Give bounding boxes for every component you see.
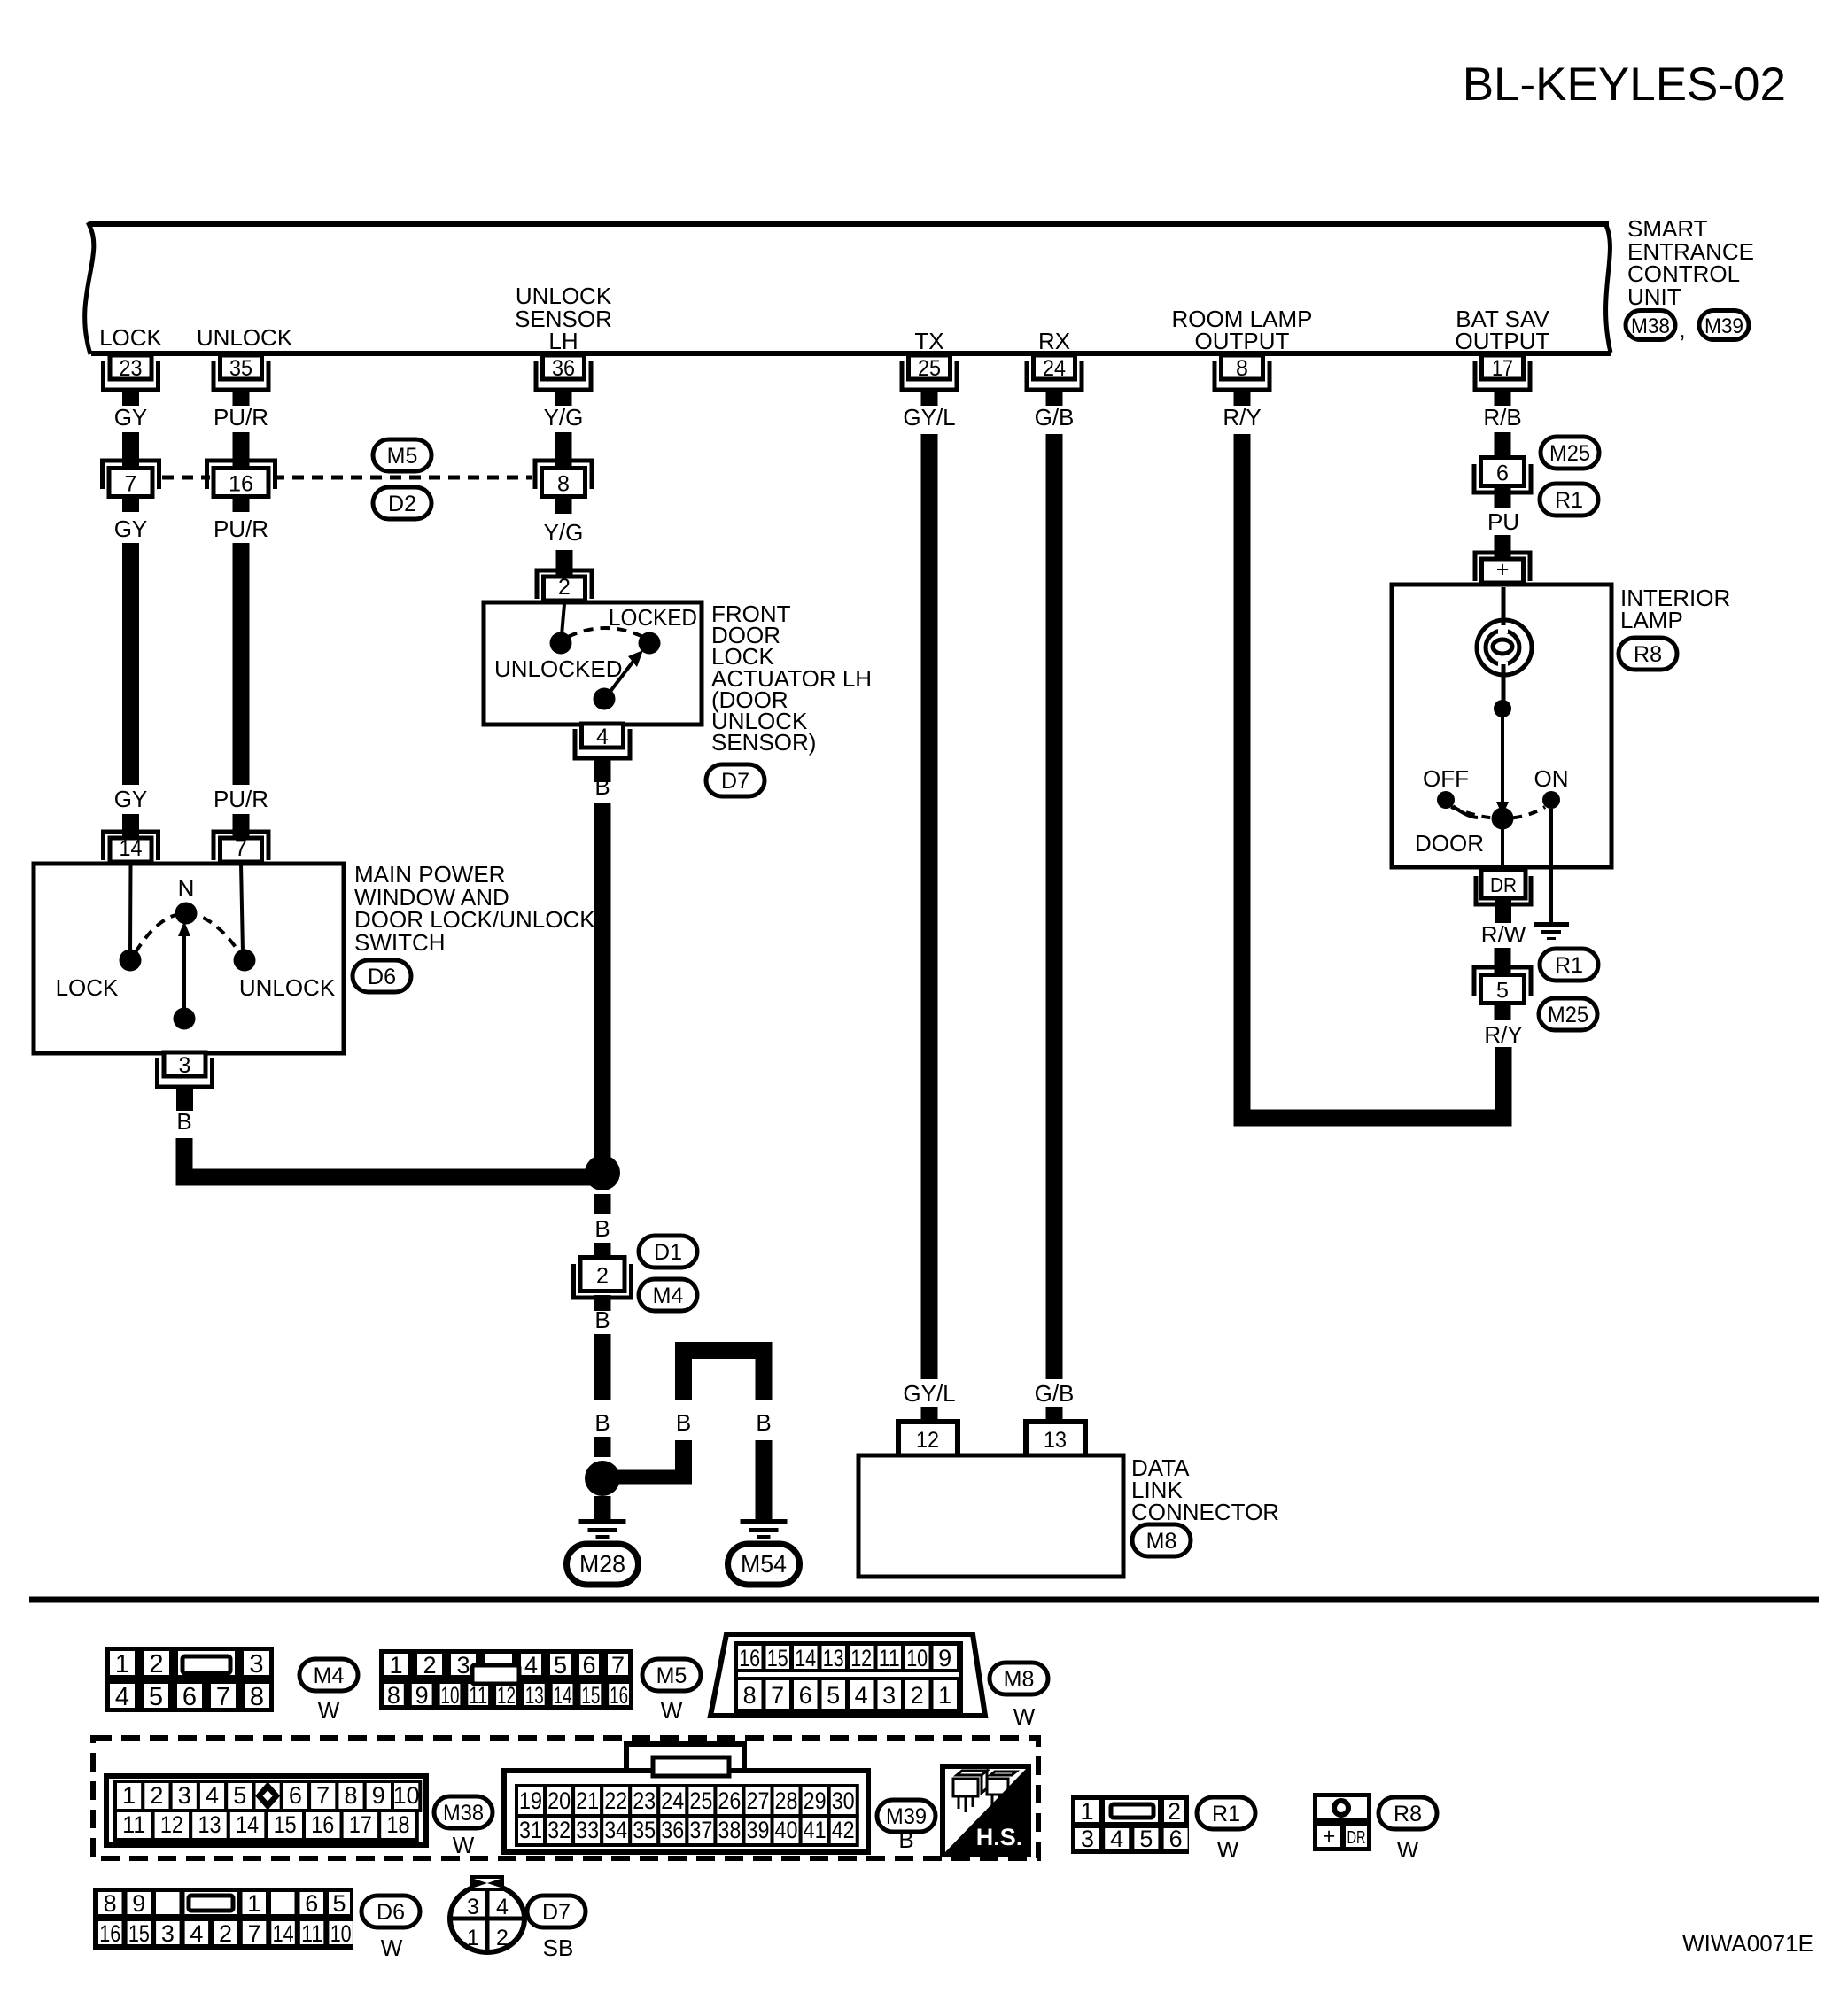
- svg-text:40: 40: [775, 1817, 798, 1843]
- connector ref D6 (pinout): [361, 1896, 420, 1961]
- svg-text:14: 14: [273, 1920, 294, 1947]
- pin 24 (control unit): [1027, 355, 1082, 406]
- line plus to bulb: [1502, 587, 1506, 631]
- label G/B: [1035, 404, 1075, 430]
- label GY/L: [903, 404, 955, 430]
- connector pinout M38: [106, 1776, 426, 1845]
- svg-text:4: 4: [115, 1683, 129, 1711]
- H.S. hand-shake logo: [943, 1766, 1029, 1855]
- connector ref R1 (pinout): [1197, 1797, 1255, 1863]
- svg-text:+: +: [1496, 557, 1510, 582]
- svg-text:12: 12: [160, 1811, 183, 1838]
- label B below connector 2: [594, 1307, 610, 1333]
- figure id WIWA0071E: [1682, 1930, 1813, 1957]
- svg-text:M4: M4: [653, 1283, 684, 1308]
- label SMART ENTRANCE CONTROL UNIT: [1627, 215, 1754, 310]
- connector ref R1 (top): [1540, 484, 1598, 516]
- pin 23 (control unit): [104, 355, 159, 406]
- label B below switch: [176, 1108, 191, 1135]
- svg-text:12: 12: [916, 1428, 939, 1453]
- svg-text:3: 3: [179, 1053, 191, 1078]
- label PU/R below connector 16: [214, 516, 268, 542]
- connector ref M5 (pinout): [642, 1659, 701, 1724]
- ground symbol M54: [741, 1519, 788, 1539]
- svg-text:4: 4: [524, 1652, 538, 1679]
- label UNLOCK SENSOR LH pin 36: [515, 283, 612, 354]
- svg-text:B: B: [594, 773, 610, 800]
- lamp arrow to door switch: [1496, 709, 1509, 816]
- svg-text:15: 15: [274, 1811, 297, 1838]
- svg-text:4: 4: [496, 1895, 509, 1919]
- svg-text:W: W: [381, 1935, 403, 1961]
- svg-text:15: 15: [581, 1682, 600, 1709]
- svg-text:B: B: [594, 1307, 610, 1333]
- connector ref M25 (top): [1541, 437, 1599, 469]
- svg-text:30: 30: [832, 1787, 855, 1814]
- wire stub below connector 16: [233, 499, 250, 512]
- pin 3 (switch): [158, 1052, 213, 1111]
- svg-text:2: 2: [149, 1650, 163, 1679]
- pin 25 (control unit): [902, 355, 957, 406]
- connector pinout M8: [710, 1634, 985, 1716]
- svg-text:37: 37: [689, 1817, 712, 1843]
- svg-text:3: 3: [161, 1920, 175, 1947]
- wire stub above connector 5: [1495, 948, 1511, 973]
- svg-text:W: W: [1397, 1836, 1419, 1863]
- connector pinout R8: [1313, 1793, 1371, 1851]
- dashed arc door switch: [1451, 807, 1545, 818]
- wire PU/R pin35 to connector 16: [233, 432, 250, 466]
- svg-text:UNLOCK: UNLOCK: [197, 324, 293, 351]
- label GY above pin 14: [114, 786, 148, 812]
- svg-text:3: 3: [467, 1895, 479, 1919]
- pin 35 (control unit): [214, 355, 268, 406]
- dashed link connector 7 to 16: [162, 476, 210, 480]
- svg-text:2: 2: [423, 1652, 436, 1679]
- svg-text:36: 36: [552, 356, 575, 381]
- data link connector box: [858, 1455, 1123, 1577]
- svg-text:W: W: [1013, 1703, 1036, 1730]
- dashed arc switch: [136, 913, 240, 953]
- svg-text:D2: D2: [388, 492, 416, 516]
- svg-text:M5: M5: [656, 1663, 687, 1688]
- svg-text:OFF: OFF: [1423, 765, 1469, 792]
- svg-text:8: 8: [250, 1683, 264, 1711]
- label Y/G below connector 8: [544, 519, 584, 546]
- svg-text:D6: D6: [368, 965, 396, 989]
- svg-text:8: 8: [387, 1682, 400, 1709]
- svg-text:38: 38: [718, 1817, 741, 1843]
- wire stub above pin 14: [122, 814, 139, 839]
- svg-text:GY: GY: [114, 516, 148, 542]
- dashed link connector 16 to 8: [273, 476, 532, 480]
- wire stub junction to ground: [594, 1496, 611, 1520]
- svg-text:31: 31: [519, 1817, 542, 1843]
- svg-text:WIWA0071E: WIWA0071E: [1682, 1930, 1813, 1957]
- svg-text:TX: TX: [914, 328, 943, 354]
- svg-text:R1: R1: [1555, 953, 1583, 978]
- svg-text:2: 2: [1168, 1798, 1181, 1825]
- wire GY/L TX to data link: [921, 434, 938, 1379]
- wire R/B pin17 to connector 6: [1495, 432, 1511, 457]
- svg-text:H.S.: H.S.: [976, 1824, 1023, 1850]
- svg-text:OUTPUT: OUTPUT: [1195, 328, 1290, 354]
- wire stub below connector 2: [594, 1295, 611, 1311]
- svg-text:M28: M28: [579, 1550, 625, 1578]
- svg-text:M54: M54: [741, 1550, 787, 1578]
- wire junction to loop: [602, 1470, 692, 1485]
- svg-text:DR: DR: [1490, 873, 1517, 896]
- wire stub above pin 12: [921, 1407, 938, 1421]
- svg-text:2: 2: [558, 575, 571, 600]
- connector pinout M4: [105, 1647, 274, 1712]
- contact dot UNLOCKED: [550, 632, 572, 655]
- wire B switch to junction: [184, 1138, 602, 1177]
- svg-text:5: 5: [827, 1682, 840, 1709]
- title BL-KEYLES-02: [1463, 58, 1786, 111]
- contact dot UNLOCK: [234, 950, 256, 972]
- svg-text:42: 42: [832, 1817, 855, 1843]
- svg-text:6: 6: [582, 1652, 595, 1679]
- svg-text:11: 11: [879, 1645, 900, 1671]
- svg-text:PU/R: PU/R: [214, 404, 268, 430]
- svg-text:R1: R1: [1555, 488, 1583, 513]
- svg-text:+: +: [1323, 1824, 1336, 1849]
- svg-text:2: 2: [596, 1264, 609, 1289]
- svg-text:UNLOCKED: UNLOCKED: [494, 655, 622, 682]
- wire PU/R connector16 to switch: [233, 543, 250, 785]
- dashed arc actuator switch: [568, 628, 643, 637]
- label TX pin 25: [914, 328, 943, 354]
- svg-text:25: 25: [918, 356, 941, 381]
- svg-text:11: 11: [122, 1811, 145, 1838]
- contact dot LOCKED: [639, 632, 661, 655]
- svg-text:25: 25: [689, 1787, 712, 1814]
- connector ref M5: [373, 439, 431, 471]
- svg-text:GY/L: GY/L: [903, 404, 955, 430]
- wire R/Y connector 5 down: [1495, 1047, 1512, 1111]
- wire Y/G to actuator pin 2: [556, 550, 573, 576]
- connector ref M8 (data link): [1132, 1524, 1191, 1556]
- line pin2 to unlocked contact: [562, 604, 564, 635]
- svg-text:23: 23: [120, 356, 143, 381]
- svg-text:13: 13: [1044, 1428, 1067, 1453]
- svg-text:2: 2: [496, 1926, 509, 1950]
- svg-text:8: 8: [344, 1782, 357, 1809]
- svg-text:5: 5: [233, 1782, 246, 1809]
- svg-text:9: 9: [415, 1682, 429, 1709]
- svg-text:B: B: [176, 1108, 191, 1135]
- svg-text:D7: D7: [542, 1900, 571, 1925]
- label GY/L above pin 12: [903, 1380, 955, 1407]
- svg-text:36: 36: [661, 1817, 684, 1843]
- svg-text:M25: M25: [1549, 441, 1590, 466]
- connector pinout D6: [93, 1888, 353, 1950]
- label LOCK pin 23: [99, 324, 162, 351]
- pin 4 (actuator): [575, 724, 630, 782]
- svg-text:28: 28: [775, 1787, 798, 1814]
- label PU: [1487, 508, 1519, 535]
- label LOCKED: [609, 604, 697, 631]
- svg-text:5: 5: [332, 1890, 346, 1917]
- wire B actuator to junction: [594, 803, 611, 1165]
- svg-text:6: 6: [182, 1683, 197, 1711]
- svg-text:10: 10: [906, 1645, 928, 1671]
- svg-text:14: 14: [236, 1811, 259, 1838]
- wire loop upper: [684, 1351, 765, 1400]
- svg-text:18: 18: [387, 1811, 410, 1838]
- wire G/B RX to data link: [1046, 434, 1063, 1379]
- svg-text:7: 7: [611, 1652, 625, 1679]
- connector ref M25 (bottom): [1539, 998, 1597, 1030]
- svg-text:29: 29: [804, 1787, 827, 1814]
- connector pinout R1: [1071, 1795, 1189, 1854]
- svg-text:LH: LH: [548, 328, 578, 354]
- svg-text:1: 1: [938, 1682, 951, 1709]
- svg-text:32: 32: [547, 1817, 571, 1843]
- svg-text:M39: M39: [1704, 314, 1743, 338]
- wire stub above ground junction: [594, 1437, 611, 1457]
- label OFF: [1423, 765, 1469, 792]
- connector 8 (M5/D2): [535, 461, 592, 497]
- label R/B: [1483, 404, 1521, 430]
- svg-text:8: 8: [743, 1682, 757, 1709]
- svg-text:SENSOR): SENSOR): [711, 729, 816, 756]
- label UNLOCK pin 35: [197, 324, 293, 351]
- ground symbol lamp ON: [1534, 922, 1569, 940]
- svg-text:7: 7: [316, 1782, 330, 1809]
- pin 14 (switch): [104, 814, 159, 862]
- contact dot N: [175, 903, 198, 925]
- svg-text:17: 17: [1492, 356, 1513, 381]
- svg-text:4: 4: [1110, 1826, 1123, 1852]
- svg-text:35: 35: [229, 356, 252, 381]
- label R/Y below connector 5: [1484, 1021, 1522, 1048]
- connector ref R8 (lamp): [1619, 638, 1677, 670]
- interior lamp box: [1392, 585, 1611, 867]
- pin 7 (switch): [214, 814, 268, 862]
- svg-text:14: 14: [120, 836, 143, 861]
- svg-text:R8: R8: [1634, 642, 1662, 667]
- label MAIN POWER WINDOW AND DOOR LOCK/UNLOCK SWITCH: [354, 861, 595, 956]
- label B loop right: [756, 1409, 771, 1436]
- line pin7 to UNLOCK contact: [241, 864, 243, 952]
- line pin14 to LOCK contact: [128, 864, 133, 952]
- wire loop right leg lower: [756, 1440, 773, 1519]
- svg-text:Y/G: Y/G: [544, 519, 584, 546]
- svg-text:D7: D7: [721, 769, 749, 794]
- svg-text:GY: GY: [114, 404, 148, 430]
- svg-text:7: 7: [216, 1683, 230, 1711]
- connector ref M39 (pinout): [877, 1800, 936, 1853]
- connector pinout D7: [450, 1877, 524, 1952]
- svg-text:10: 10: [393, 1782, 420, 1809]
- svg-text:GY/L: GY/L: [903, 1380, 955, 1407]
- wire stub below connector 5: [1495, 1005, 1511, 1020]
- svg-text:G/B: G/B: [1035, 404, 1075, 430]
- svg-text:LOCK: LOCK: [56, 974, 119, 1001]
- label N: [178, 875, 195, 902]
- svg-text:2: 2: [150, 1782, 163, 1809]
- svg-text:W: W: [661, 1697, 683, 1724]
- svg-text:6: 6: [799, 1682, 812, 1709]
- svg-text:M25: M25: [1548, 1003, 1588, 1027]
- svg-text:GY: GY: [114, 786, 148, 812]
- svg-text:LOCK: LOCK: [99, 324, 162, 351]
- label R/Y: [1223, 404, 1261, 430]
- svg-text:W: W: [453, 1832, 475, 1858]
- svg-text:R1: R1: [1212, 1802, 1240, 1826]
- svg-text:1: 1: [122, 1782, 136, 1809]
- label PU/R above pin 7: [214, 786, 268, 812]
- dashed harness box: [93, 1738, 1038, 1858]
- svg-text:1: 1: [247, 1890, 260, 1917]
- svg-text:SWITCH: SWITCH: [354, 929, 446, 956]
- connector ref M38 (pinout): [434, 1796, 493, 1858]
- svg-text:16: 16: [739, 1645, 760, 1671]
- label ON: [1534, 765, 1569, 792]
- connector ref M4 (inline): [639, 1279, 697, 1311]
- svg-text:R/B: R/B: [1483, 404, 1521, 430]
- connector 7 (M5/D2): [103, 461, 159, 497]
- svg-text:W: W: [1217, 1836, 1239, 1863]
- svg-text:5: 5: [1496, 979, 1509, 1004]
- connector pinout M5: [379, 1649, 633, 1710]
- connector ref D7 (pinout): [527, 1896, 586, 1961]
- label ROOM LAMP OUTPUT pin 8: [1172, 306, 1313, 354]
- svg-text:21: 21: [576, 1787, 599, 1814]
- line ON to ground: [1549, 809, 1553, 922]
- pin 2 (actuator): [537, 570, 592, 601]
- svg-text:16: 16: [311, 1811, 334, 1838]
- svg-text:4: 4: [596, 725, 609, 749]
- svg-text:LOCKED: LOCKED: [609, 604, 697, 631]
- label UNLOCK (switch): [239, 974, 336, 1001]
- svg-text:UNLOCK: UNLOCK: [239, 974, 336, 1001]
- svg-text:16: 16: [229, 472, 253, 497]
- switch arrow: [178, 921, 190, 1019]
- svg-text:35: 35: [633, 1817, 656, 1843]
- wire stub below connector 6: [1495, 488, 1511, 508]
- label B below actuator: [594, 773, 610, 800]
- label GY: [114, 404, 148, 430]
- svg-text:5: 5: [554, 1652, 567, 1679]
- connector ref M39 (control unit): [1699, 311, 1749, 340]
- svg-text:13: 13: [823, 1645, 844, 1671]
- wire stub below junction: [594, 1194, 611, 1214]
- svg-text:22: 22: [604, 1787, 627, 1814]
- svg-text:20: 20: [547, 1787, 571, 1814]
- wire Y/G pin36 to connector 8: [555, 432, 572, 466]
- pin + (interior lamp): [1475, 553, 1530, 583]
- svg-text:34: 34: [604, 1817, 627, 1843]
- svg-text:DR: DR: [1347, 1828, 1366, 1848]
- svg-text:24: 24: [1043, 356, 1066, 381]
- svg-text:15: 15: [128, 1920, 150, 1947]
- OFF contact tail: [1453, 806, 1478, 818]
- connector ref D2: [373, 487, 431, 519]
- svg-text:UNIT: UNIT: [1627, 283, 1681, 310]
- lamp bulb symbol: [1477, 620, 1532, 675]
- svg-text:M4: M4: [314, 1663, 345, 1688]
- svg-text:39: 39: [747, 1817, 770, 1843]
- svg-text:26: 26: [718, 1787, 741, 1814]
- svg-text:1: 1: [1080, 1798, 1093, 1825]
- svg-text:2: 2: [219, 1920, 232, 1947]
- svg-text:27: 27: [747, 1787, 770, 1814]
- pin 12 (data link connector): [898, 1422, 958, 1455]
- svg-text:10: 10: [441, 1682, 460, 1709]
- ground ref M54: [728, 1544, 800, 1585]
- connector pinout M39: [504, 1744, 868, 1852]
- svg-text:PU/R: PU/R: [214, 516, 268, 542]
- svg-text:8: 8: [557, 472, 570, 497]
- svg-text:1: 1: [467, 1926, 479, 1950]
- pin 13 (data link connector): [1026, 1422, 1085, 1455]
- connector ref D7 (actuator): [706, 764, 765, 796]
- ground symbol M28: [579, 1519, 626, 1539]
- svg-text:14: 14: [795, 1645, 816, 1671]
- svg-text:12: 12: [850, 1645, 872, 1671]
- svg-text:D6: D6: [377, 1900, 405, 1925]
- label FRONT DOOR LOCK ACTUATOR LH (DOOR UNLOCK SENSOR): [711, 601, 872, 756]
- ground ref M28: [567, 1544, 639, 1585]
- wire GY pin23 to connector 7: [122, 432, 139, 466]
- svg-text:11: 11: [301, 1920, 322, 1947]
- wire R/Y pin8 to interior lamp: [1234, 434, 1504, 1127]
- front door lock actuator box: [484, 602, 702, 725]
- svg-text:13: 13: [525, 1682, 544, 1709]
- svg-text:,: ,: [1679, 316, 1685, 343]
- svg-text:4: 4: [206, 1782, 219, 1809]
- svg-text:M8: M8: [1146, 1529, 1177, 1554]
- svg-text:1: 1: [115, 1650, 129, 1679]
- label G/B above pin 13: [1035, 1380, 1075, 1407]
- pin 17 (control unit): [1475, 355, 1530, 406]
- svg-text:7: 7: [771, 1682, 784, 1709]
- svg-text:7: 7: [125, 472, 137, 497]
- svg-text:3: 3: [1081, 1826, 1094, 1852]
- line pivot to DR: [1501, 824, 1504, 872]
- svg-text:6: 6: [305, 1890, 318, 1917]
- svg-text:19: 19: [519, 1787, 542, 1814]
- svg-text:PU/R: PU/R: [214, 786, 268, 812]
- connector 2 (D1/M4): [574, 1258, 632, 1299]
- svg-text:13: 13: [198, 1811, 221, 1838]
- contact dot OFF: [1437, 791, 1455, 809]
- label B above connector 2: [594, 1215, 610, 1242]
- svg-text:B: B: [676, 1409, 691, 1436]
- svg-text:B: B: [756, 1409, 771, 1436]
- svg-text:8: 8: [104, 1890, 117, 1917]
- svg-text:3: 3: [456, 1652, 470, 1679]
- svg-text:16: 16: [99, 1920, 120, 1947]
- label RX pin 24: [1038, 328, 1070, 354]
- svg-text:3: 3: [178, 1782, 191, 1809]
- connector ref M4 (pinout): [299, 1659, 358, 1724]
- wire stub above connector 2: [594, 1243, 611, 1257]
- wire stub below connector 7: [122, 499, 139, 512]
- svg-text:4: 4: [190, 1920, 203, 1947]
- svg-text:R/Y: R/Y: [1223, 404, 1261, 430]
- label Y/G: [544, 404, 584, 430]
- label PU/R: [214, 404, 268, 430]
- connector 16 (M5/D2): [207, 461, 276, 497]
- svg-text:D1: D1: [654, 1240, 682, 1265]
- svg-text:LAMP: LAMP: [1620, 607, 1683, 633]
- label INTERIOR LAMP: [1620, 585, 1730, 633]
- svg-text:3: 3: [249, 1650, 263, 1679]
